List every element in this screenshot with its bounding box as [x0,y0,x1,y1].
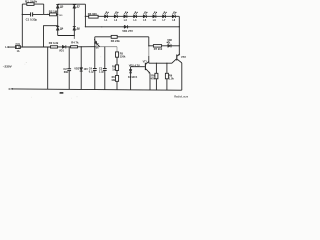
resistor R2b rail [51,46,58,48]
node LED feed [85,16,86,17]
wire mid rail [8,46,95,48]
wire N riser [47,47,49,89]
wire VT1 emitter drop [149,73,151,90]
wire left vertical L riser [21,4,23,47]
node junction [47,14,48,15]
svg-text:1M: 1M [112,68,115,71]
ink mark artifact [60,92,64,94]
svg-text:RadioLocman.com: RadioLocman.com [174,94,188,98]
terminal N [11,88,13,90]
svg-text:Д5: Д5 [60,5,64,9]
svg-text:~230V: ~230V [3,64,13,68]
wire DC plus drop [84,4,86,27]
wire branch zener VD3 [80,47,82,90]
node AC2 tap [57,25,58,26]
zener VD3 [80,68,83,72]
wire branch R9 [166,63,168,90]
wire VT2 collector drop [181,63,183,90]
diode VD1b on rail [62,45,66,48]
node R7 row tap [148,45,149,46]
node rail end [94,46,95,47]
diode D6 [73,27,76,31]
zener VD2 [129,70,132,73]
node R6 tap [156,63,157,64]
wire LED row [98,15,179,17]
node C1 row left [22,14,23,15]
node R8 tap [166,63,167,64]
svg-text:47k: 47k [151,77,156,80]
node diode row right [179,45,180,46]
svg-text:R2 1M: R2 1M [49,9,58,13]
node mid rail dot [101,26,102,27]
bridge top rail [58,3,86,5]
capacitor C4 [93,69,97,71]
bridge right branch wire [73,4,75,35]
node rail27 left corner [85,26,86,27]
LED L8 [172,12,176,18]
svg-text:2.2µ: 2.2µ [99,71,104,74]
wire R4 row [95,36,149,38]
resistor R4 [111,35,117,38]
svg-text:10V: 10V [84,68,89,71]
diode VD5 diagonal [94,39,99,47]
wire bottom rail [12,89,182,90]
resistor R1 [22,3,43,6]
speckle noise [25,24,142,99]
resistor R7 [153,45,161,48]
resistor R4b rail [71,46,78,48]
svg-text:1A: 1A [17,50,20,53]
wire minus stub [73,36,75,39]
resistor R10 lower [116,76,119,82]
node mid rail AC2 join [43,46,44,47]
node C2 tap [69,46,70,47]
LED L7 [163,12,167,18]
svg-text:R1 240k: R1 240k [25,0,38,3]
svg-text:KC147A: KC147A [128,76,137,79]
wire mid rail faint extension [95,46,117,48]
capacitor C2 [67,69,71,71]
svg-text:C1 0.33µ: C1 0.33µ [26,17,38,21]
wire branch C2 [68,47,70,90]
wire AC1 row [44,13,58,15]
diode VD8 [167,42,171,48]
node AC1 bridge tap [57,14,58,15]
bridge left branch wire [57,4,59,35]
transistor VT1 [131,61,151,73]
wire 27V rail [85,26,179,28]
svg-text:VT1: VT1 [143,61,148,63]
LED L4 [134,12,138,18]
svg-text:FU1: FU1 [16,44,21,46]
wire collector line [149,59,177,63]
svg-text:VD3: VD3 [74,67,80,71]
wire AC2 tap to mid rail [44,26,58,47]
diode D4 [56,27,59,31]
wire v3 riser [94,37,96,47]
resistor R2 [50,13,57,16]
diode D7 [73,5,76,9]
wire branch C4 [94,47,96,90]
LED L6 [153,12,157,18]
wire branch R6 [155,63,157,90]
LED L5 [143,12,147,18]
wire right edge vertical upper [178,16,180,54]
svg-text:1.5k: 1.5k [169,77,174,80]
fuse FU1 [16,46,21,49]
svg-text:R4 24k: R4 24k [111,39,120,43]
resistor R8 lower [116,65,119,71]
wire branch R5 [116,47,118,52]
node fuse-RC junction [22,46,23,47]
svg-text:VT2: VT2 [181,55,186,59]
wire riser R4row to collector line [148,37,150,47]
svg-text:Д7: Д7 [77,5,81,9]
wire branch C3 [104,47,106,90]
node bridge minus [74,35,75,36]
LED L2 [114,12,118,18]
capacitor C1 [22,12,43,16]
diode D5 [56,5,59,9]
resistor R5 [116,52,119,57]
LED chain group [105,12,177,23]
transistor VT2 [177,54,182,63]
node 27 rail right [179,26,180,27]
svg-text:Д4: Д4 [60,27,64,31]
resistor R3 [89,15,98,18]
resistor R9 [165,73,168,79]
svg-text:VD1 27V: VD1 27V [122,29,133,33]
bridge bottom link [58,35,75,37]
capacitor C3 [103,69,107,71]
svg-text:VD1: VD1 [59,49,64,52]
wire branch zener VD2 [130,67,132,90]
wire R7 row [149,45,180,47]
wire to R3 [85,15,88,17]
svg-text:R2 3.3k: R2 3.3k [49,41,59,45]
node zener tap [81,46,82,47]
terminal L [7,46,9,48]
LED L3 [124,12,128,18]
LED L1 [105,12,109,18]
svg-text:0.1µ: 0.1µ [89,71,94,74]
svg-text:VD8: VD8 [167,39,172,42]
diode VD1 zener on rail [123,25,130,28]
svg-text:R4 7k: R4 7k [71,40,79,44]
svg-text:R3 300: R3 300 [88,12,97,16]
resistor R6 [155,73,158,79]
svg-text:120k: 120k [120,55,126,58]
svg-text:43k: 43k [111,79,116,82]
svg-text:68n: 68n [64,70,69,74]
svg-text:Д6: Д6 [77,27,81,31]
wire RC right vertical [43,4,45,14]
svg-text:R7 910: R7 910 [154,47,163,51]
svg-text:N: N [9,88,11,91]
